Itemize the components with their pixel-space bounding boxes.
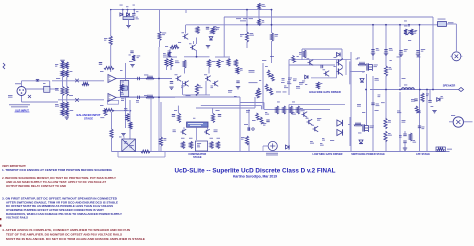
svg-text:1. TRIMPOT DCO ENSURE AT CENTE: 1. TRIMPOT DCO ENSURE AT CENTER TRIM POS… xyxy=(2,168,113,172)
svg-text:SPEAKER: SPEAKER xyxy=(443,84,456,88)
svg-text:Kartino Surodipo, Mar 2019: Kartino Surodipo, Mar 2019 xyxy=(233,175,277,179)
svg-text:MUST BE IN BALANCED. DO SET DC: MUST BE IN BALANCED. DO SET DCO TRIM AGA… xyxy=(6,237,145,241)
svg-text:XLR INPUT: XLR INPUT xyxy=(15,108,29,112)
svg-text:STAGE: STAGE xyxy=(193,156,202,159)
svg-text:VOLTAGE RAILS: VOLTAGE RAILS xyxy=(6,216,28,220)
svg-text:BALANCED INPUT: BALANCED INPUT xyxy=(77,113,101,117)
svg-text:UcD-SLite -- Superlite UcD Dis: UcD-SLite -- Superlite UcD Discrete Clas… xyxy=(175,167,336,174)
svg-text:TEST OF THE AMPLIFIER. DO MONI: TEST OF THE AMPLIFIER. DO MONITOR DC OFF… xyxy=(6,232,122,236)
svg-text:SWITCHING POWER STAGE: SWITCHING POWER STAGE xyxy=(351,153,385,156)
svg-text:LPF STAGE: LPF STAGE xyxy=(416,153,430,156)
svg-text:4. AFTER ABOVE IS COMPLETE, CO: 4. AFTER ABOVE IS COMPLETE, CONNECT AMPL… xyxy=(2,228,131,232)
svg-text:OUTPUT BEFORE RELAY CONTACT TO: OUTPUT BEFORE RELAY CONTACT TO GND xyxy=(6,184,67,188)
svg-text:STAGE: STAGE xyxy=(84,117,93,121)
svg-text:HIGH SIDE GATE DRIVER: HIGH SIDE GATE DRIVER xyxy=(309,90,341,94)
svg-text:LOW SIDE GATE DRIVER: LOW SIDE GATE DRIVER xyxy=(313,153,343,156)
